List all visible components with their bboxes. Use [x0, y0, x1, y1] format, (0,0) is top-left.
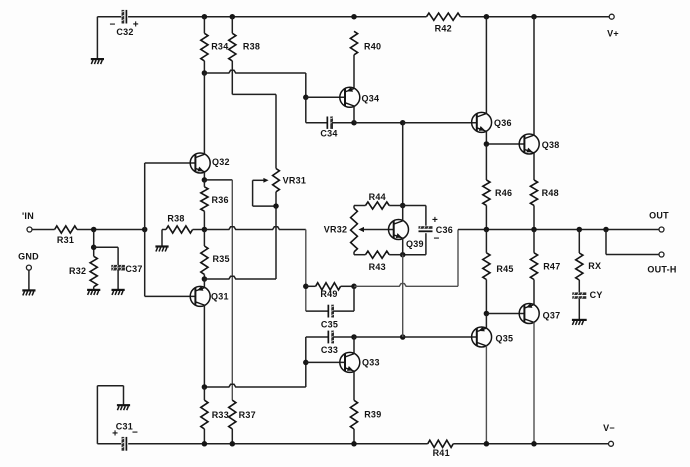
- svg-text:+: +: [432, 215, 438, 226]
- wire C32 to ground: [96, 17, 98, 59]
- node R36 R35 midpoint: [202, 227, 208, 233]
- wire OUT-H branch: [606, 230, 659, 255]
- resistor R45: [483, 230, 490, 314]
- wire Q37 base: [486, 313, 524, 315]
- label VR32: [324, 225, 348, 235]
- svg-text:R32: R32: [69, 266, 86, 276]
- potentiometer VR31: [273, 169, 280, 192]
- node output RX: [577, 227, 583, 233]
- wire R49 east: [354, 284, 458, 287]
- wire C34 to Q34 collector: [332, 122, 354, 124]
- label R34: [211, 41, 228, 51]
- node R49 right: [351, 284, 357, 290]
- resistor R36: [201, 180, 208, 230]
- svg-text:Q36: Q36: [494, 118, 512, 128]
- resistor R42: [427, 13, 461, 20]
- label C31: [112, 422, 138, 440]
- svg-text:V+: V+: [607, 28, 619, 38]
- node R32 tap: [91, 227, 97, 233]
- label C34: [320, 129, 337, 139]
- svg-text:R41: R41: [433, 448, 450, 458]
- svg-text:R40: R40: [364, 41, 381, 51]
- transistor Q32: [190, 153, 210, 173]
- wire Q37 emitter: [533, 322, 535, 444]
- resistor R31: [55, 226, 77, 233]
- resistor R44: [366, 202, 390, 209]
- resistor R47: [530, 230, 537, 305]
- wire Q38 collector: [533, 17, 535, 136]
- resistor R41: [428, 440, 454, 447]
- svg-text:R35: R35: [213, 254, 230, 264]
- transistor Q33: [340, 352, 360, 372]
- label Q33: [362, 358, 380, 368]
- capacitor CY: [572, 292, 586, 298]
- svg-text:Q35: Q35: [496, 334, 514, 344]
- wire Q39 collector: [402, 206, 404, 221]
- wire top supply rail: [204, 16, 426, 18]
- svg-text:GND: GND: [18, 251, 39, 261]
- svg-text:C35: C35: [321, 319, 338, 329]
- node R49 left: [303, 284, 309, 290]
- label C32: [110, 19, 139, 37]
- node output R46: [484, 227, 490, 233]
- transistor Q38: [519, 134, 539, 154]
- label R41: [433, 448, 450, 458]
- node Q34 collector: [351, 120, 357, 126]
- svg-text:R43: R43: [369, 262, 386, 272]
- label Q39: [406, 239, 424, 249]
- wire output line: [458, 229, 659, 231]
- node Q33 base tap: [303, 360, 309, 366]
- wire midpoint east: [204, 227, 305, 230]
- label Q38: [542, 140, 560, 150]
- svg-text:R44: R44: [369, 192, 386, 202]
- node rail Q35: [484, 441, 490, 447]
- capacitor C35: [328, 305, 334, 318]
- wire Q31 collector: [203, 305, 205, 387]
- svg-text:R46: R46: [495, 188, 512, 198]
- label R42: [435, 23, 452, 33]
- wire C33 right: [333, 336, 354, 338]
- svg-text:+: +: [133, 20, 139, 31]
- node Q34 base tap: [303, 95, 309, 101]
- label R39: [364, 410, 381, 420]
- label CY: [590, 290, 603, 300]
- resistor RX: [576, 230, 583, 293]
- label R33: [212, 410, 229, 420]
- node Q31 collector R33: [202, 384, 208, 390]
- node rail R37: [230, 441, 236, 447]
- svg-text:Q32: Q32: [212, 157, 230, 167]
- svg-text:Q33: Q33: [362, 358, 380, 368]
- node VAS bottom: [400, 334, 406, 340]
- resistor R34: [201, 17, 208, 73]
- wire R44 to node: [389, 205, 403, 207]
- svg-text:OUT-H: OUT-H: [647, 264, 676, 274]
- label R32: [69, 266, 86, 276]
- wire C35 loop right: [333, 286, 354, 311]
- resistor R35: [201, 230, 208, 280]
- wire top to C36: [403, 206, 426, 226]
- svg-text:R45: R45: [496, 264, 513, 274]
- label Q35: [496, 334, 514, 344]
- ground R32: [87, 290, 100, 295]
- wire to Q31 base: [145, 295, 196, 297]
- terminal V+: [607, 14, 619, 38]
- wire C33 line east: [354, 336, 403, 338]
- label R31: [57, 235, 74, 245]
- wire CY to ground: [578, 299, 580, 319]
- wire Q35 collector lead: [485, 314, 487, 329]
- ground C37: [112, 290, 125, 295]
- node R35 bottom: [202, 276, 208, 282]
- terminal OUT: [649, 210, 669, 232]
- wire to Q36 base: [403, 122, 478, 124]
- svg-text:−: −: [110, 19, 116, 30]
- transistor Q37: [519, 303, 539, 324]
- wire Q32 collector: [203, 73, 205, 154]
- wire IN to R31: [32, 229, 55, 231]
- label C33: [321, 345, 338, 355]
- terminal OUT-H: [647, 252, 676, 274]
- wire R35 bottom east: [204, 276, 276, 279]
- capacitor C32: [122, 10, 205, 24]
- resistor R32: [90, 230, 97, 290]
- svg-text:C32: C32: [116, 27, 133, 37]
- label R38 upper: [243, 41, 260, 51]
- wire VR31 riser: [275, 206, 277, 279]
- wire riser to output line: [457, 230, 459, 287]
- transistor Q34: [340, 87, 360, 108]
- wire Q33 collector: [353, 337, 355, 354]
- svg-text:R38: R38: [167, 214, 184, 224]
- svg-text:CY: CY: [590, 290, 603, 300]
- wire input riser: [144, 163, 146, 296]
- resistor R46: [483, 144, 490, 230]
- svg-text:R38: R38: [243, 41, 260, 51]
- capacitor C33: [328, 331, 334, 344]
- label Q36: [494, 118, 512, 128]
- wire Q33 base: [306, 361, 345, 363]
- label C36: [432, 215, 453, 245]
- svg-text:R47: R47: [543, 261, 560, 271]
- svg-text:OUT: OUT: [649, 210, 669, 220]
- label R35: [213, 254, 230, 264]
- capacitor C34: [327, 117, 333, 129]
- wire Q37 collector: [533, 303, 535, 306]
- terminal V-: [603, 423, 615, 447]
- wire to C37: [94, 247, 118, 265]
- resistor R38 feedback: [162, 226, 204, 233]
- svg-text:R36: R36: [212, 195, 229, 205]
- node output OUT-H: [603, 227, 609, 233]
- svg-text:Q39: Q39: [406, 239, 424, 249]
- node rail R34: [202, 14, 208, 20]
- node output R48: [531, 227, 537, 233]
- wire bias box top: [354, 205, 366, 207]
- node bias top: [400, 203, 406, 209]
- node VAS top: [400, 120, 406, 126]
- label R38 feedback: [167, 214, 184, 224]
- wiper VR32: [358, 227, 393, 232]
- label Q31: [211, 291, 229, 301]
- svg-text:RX: RX: [588, 261, 601, 271]
- wire VAS vertical: [402, 123, 404, 206]
- label R40: [364, 41, 381, 51]
- wire R38 fb to ground: [161, 230, 163, 246]
- wire Q35 emitter: [485, 346, 487, 444]
- ground CY: [572, 320, 587, 325]
- label RX: [588, 261, 601, 271]
- wiper VR31: [253, 178, 276, 206]
- label R45: [496, 264, 513, 274]
- wire node to Q34 base column: [204, 70, 305, 97]
- wire R33 line: [204, 384, 305, 387]
- wire long column: [231, 180, 233, 400]
- resistor R37: [229, 400, 236, 444]
- node Q36 emitter: [484, 141, 490, 147]
- wire bottom rail: [128, 443, 428, 445]
- wire to Q35 base: [403, 336, 478, 338]
- label R43: [369, 262, 386, 272]
- svg-text:C31: C31: [116, 422, 133, 432]
- node Q35 collector: [484, 311, 490, 317]
- wire C34 line to VAS node: [354, 122, 403, 124]
- label R44: [369, 192, 386, 202]
- node rail R33: [202, 441, 208, 447]
- transistor Q31: [190, 286, 210, 307]
- label R37: [239, 410, 256, 420]
- wire Q36 collector: [485, 17, 487, 114]
- wire Q34 collector lead: [353, 106, 355, 123]
- wire mid column upper: [305, 230, 307, 312]
- wire Q34 base: [306, 96, 344, 98]
- svg-text:VR31: VR31: [283, 176, 307, 186]
- node C33 Q33 collector: [351, 334, 357, 340]
- svg-text:R33: R33: [212, 410, 229, 420]
- label VR31: [283, 176, 307, 186]
- svg-text:R37: R37: [239, 410, 256, 420]
- resistor R33: [201, 387, 208, 444]
- wire top supply rail left: [97, 16, 121, 18]
- label Q32: [212, 157, 230, 167]
- node rail R40: [351, 14, 357, 20]
- capacitor C31: [122, 437, 127, 451]
- svg-text:R34: R34: [211, 41, 228, 51]
- resistor R43: [354, 251, 403, 258]
- svg-text:+: +: [112, 429, 118, 440]
- wire to Q32 base: [145, 162, 196, 164]
- terminal IN: [22, 211, 34, 232]
- wire bottom rail right: [453, 443, 608, 445]
- svg-text:Q38: Q38: [542, 140, 560, 150]
- svg-text:−: −: [132, 428, 138, 439]
- svg-text:R31: R31: [57, 235, 74, 245]
- label R47: [543, 261, 560, 271]
- wire Q36 to Q38 base: [486, 143, 524, 145]
- wire C36 bottom: [403, 233, 426, 255]
- node rail R39: [351, 441, 357, 447]
- capacitor C37: [111, 265, 125, 271]
- wire GND terminal: [28, 270, 30, 290]
- svg-text:VR32: VR32: [324, 225, 348, 235]
- wire C35 loop left: [306, 310, 328, 312]
- wire Q38 emitter: [533, 153, 535, 180]
- wire VAS lower: [402, 255, 404, 337]
- ground R38 feedback: [155, 247, 168, 252]
- svg-text:V−: V−: [603, 423, 615, 433]
- wire Q32 emitter: [203, 172, 205, 180]
- svg-text:R49: R49: [320, 289, 337, 299]
- ground GND terminal: [22, 290, 35, 295]
- svg-text:R48: R48: [542, 188, 559, 198]
- resistor R48: [530, 180, 537, 230]
- ground C32: [91, 59, 104, 64]
- svg-text:C37: C37: [125, 264, 142, 274]
- wire top rail right: [460, 16, 609, 18]
- wire R31 to base riser: [77, 229, 145, 231]
- svg-text:−: −: [434, 234, 440, 245]
- resistor R40: [350, 31, 357, 87]
- node C37 tap: [91, 245, 97, 251]
- wire down to C34 line: [306, 97, 327, 122]
- node rail Q36: [484, 14, 490, 20]
- wire Q36 emitter: [485, 131, 487, 144]
- wire Q31 emitter: [203, 279, 205, 288]
- potentiometer VR32: [351, 206, 358, 255]
- svg-text:Q31: Q31: [211, 291, 229, 301]
- node Q32 emitter: [202, 177, 208, 183]
- svg-text:C34: C34: [320, 129, 337, 139]
- node R34 bottom: [202, 70, 208, 76]
- wire C31 ground hook: [97, 386, 123, 444]
- wire C37 to ground: [117, 270, 119, 289]
- label Q34: [362, 94, 380, 104]
- transistor Q36: [472, 112, 492, 132]
- resistor R39: [350, 400, 357, 444]
- wire Q33 emitter: [353, 371, 355, 400]
- node rail Q37: [531, 441, 537, 447]
- resistor R38 upper: [229, 17, 236, 61]
- label R36: [212, 195, 229, 205]
- wire Q32 emitter to long column: [204, 179, 232, 181]
- svg-text:R39: R39: [364, 410, 381, 420]
- node rail R38: [230, 14, 236, 20]
- transistor Q39: [389, 220, 409, 240]
- svg-text:C33: C33: [321, 345, 338, 355]
- label R49: [320, 289, 337, 299]
- resistor R49: [306, 283, 354, 290]
- svg-text:'IN: 'IN: [22, 211, 34, 221]
- node rail Q38: [531, 14, 537, 20]
- wire Q39 emitter: [402, 238, 404, 255]
- wire R38 to VR31: [232, 61, 276, 169]
- ground C31 hook: [117, 405, 130, 410]
- capacitor C36: [419, 226, 433, 231]
- node input riser: [142, 227, 148, 233]
- terminal GND: [18, 251, 39, 270]
- wire bottom rail left: [97, 443, 121, 445]
- label C35: [321, 319, 338, 329]
- label R46: [495, 188, 512, 198]
- label Q37: [543, 311, 561, 321]
- label R48: [542, 188, 559, 198]
- node bias bottom: [400, 252, 406, 258]
- wire C33 left column: [305, 337, 307, 387]
- label C37: [125, 264, 142, 274]
- transistor Q35: [472, 327, 492, 348]
- svg-text:R42: R42: [435, 23, 452, 33]
- wire C33 left: [306, 336, 328, 338]
- svg-text:Q34: Q34: [362, 94, 380, 104]
- node VR31 bottom: [273, 203, 279, 209]
- svg-text:Q37: Q37: [543, 311, 561, 321]
